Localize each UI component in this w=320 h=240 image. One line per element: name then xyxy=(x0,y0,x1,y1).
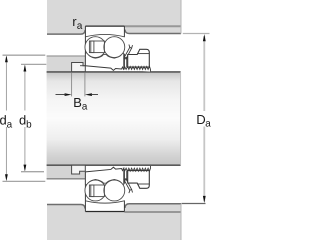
inner ring right face xyxy=(123,53,125,69)
dimension D_a level line xyxy=(183,33,210,35)
inner ring left face xyxy=(84,53,86,66)
housing upper bore/shoulder edges xyxy=(47,30,85,34)
shaft surface lower line xyxy=(47,164,181,166)
sleeve taper line (inner ring bore) xyxy=(85,66,124,71)
dimension d_b arrows xyxy=(24,64,27,71)
shaft shoulder lower xyxy=(47,165,86,179)
label d_b xyxy=(20,115,26,125)
dimension d_a vertical line xyxy=(5,57,7,179)
housing lower bore/shoulder edges xyxy=(47,205,85,209)
lock washer foot line xyxy=(124,57,130,59)
dimension d_b level lines xyxy=(21,64,46,171)
bearing + sleeve + nut lower assembly (mirror) xyxy=(85,166,151,212)
shaft shoulder upper xyxy=(47,56,86,72)
bearing + sleeve + nut upper assembly xyxy=(85,26,151,72)
lock washer tab xyxy=(124,47,132,59)
housing lower block xyxy=(47,204,181,240)
dimension D_a vertical line xyxy=(203,36,205,202)
label D_a xyxy=(197,115,205,124)
shaft body xyxy=(47,72,181,166)
dimension B_a arrow tails xyxy=(56,94,99,96)
lock washer tab fork tips xyxy=(129,45,133,49)
cage inner rect xyxy=(91,41,94,53)
housing upper bore line over lock nut xyxy=(125,25,182,27)
dimension d_b vertical line xyxy=(24,67,26,170)
housing lower right edge xyxy=(180,204,182,240)
ball row 1 xyxy=(85,37,106,58)
outer ring left face xyxy=(84,26,86,53)
housing lower bore line under lock nut xyxy=(124,211,181,213)
shaft shoulder upper edge line xyxy=(47,55,86,57)
dimension B_a arrows xyxy=(65,93,72,96)
outer ring right face xyxy=(123,26,125,37)
housing upper block xyxy=(47,0,181,34)
shaft surface upper line xyxy=(47,71,181,73)
dimension B_a extension lines xyxy=(72,73,85,96)
dimension d_a arrows xyxy=(5,55,8,62)
sleeve thread zigzag xyxy=(121,66,150,71)
bearing interior white xyxy=(85,26,124,37)
label B_a xyxy=(74,98,81,107)
cage outer rect xyxy=(89,41,104,53)
dimension D_a arrows xyxy=(203,34,206,41)
lock nut body xyxy=(128,49,150,67)
label d_a xyxy=(0,115,6,125)
shaft shoulder lower edge line xyxy=(47,178,86,180)
lock washer strip xyxy=(124,54,126,70)
label r_a xyxy=(73,19,76,26)
shaft right edge xyxy=(180,72,182,165)
outer ring spherical raceway xyxy=(85,35,124,37)
shoulder recess lower (sleeve lip clearance) xyxy=(72,165,86,174)
inner ring top contour xyxy=(85,53,123,58)
housing upper right edge xyxy=(180,0,182,34)
lock nut chamfer line xyxy=(137,53,149,55)
inner ring body white xyxy=(85,53,123,70)
dimension D_a lower level line xyxy=(182,203,206,205)
shoulder recess upper (sleeve lip clearance) xyxy=(72,63,86,72)
dimension d_a level lines xyxy=(3,55,46,181)
outer ring outer surface xyxy=(85,25,124,27)
ball row 2 xyxy=(104,37,125,58)
